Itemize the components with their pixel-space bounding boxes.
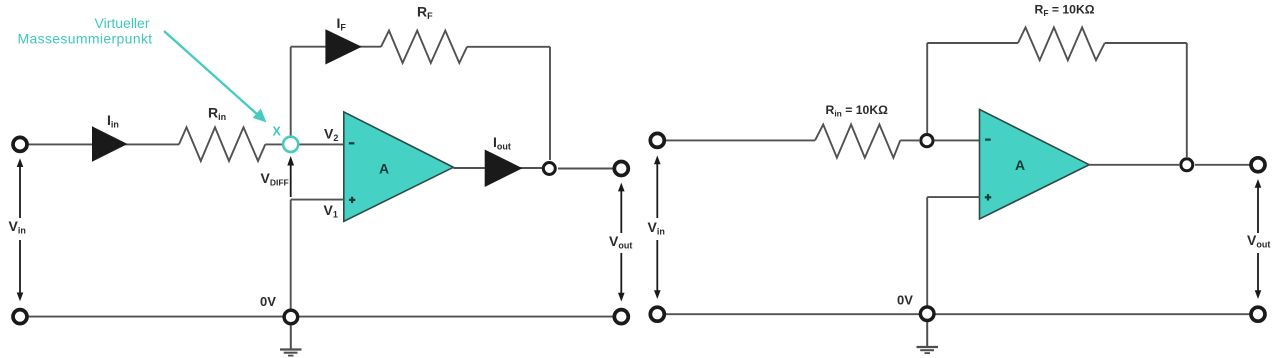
Vin double arrow (left) <box>19 165 21 218</box>
resistor Rf = 10K (right) <box>1018 27 1105 60</box>
output junction node (left) <box>543 163 555 175</box>
ground (left) <box>290 325 292 349</box>
ground (right) <box>926 322 928 347</box>
wire: output node to output terminal <box>558 168 613 170</box>
svg-text:Massesummierpunkt: Massesummierpunkt <box>17 31 152 47</box>
svg-text:A: A <box>1015 157 1025 173</box>
resistor Rf <box>381 31 467 63</box>
arrow VDIFF (pointing up to node X) <box>290 164 292 197</box>
svg-text:A: A <box>379 161 389 177</box>
current arrow Iin <box>92 126 128 161</box>
bottom left terminal <box>13 310 27 324</box>
op-amp A (left) <box>344 112 454 221</box>
bottom right terminal (right circuit) <box>1251 307 1265 321</box>
wire: feedback riser from node X <box>290 47 292 136</box>
annotation arrow to node X <box>164 31 258 115</box>
inverting input node (right) <box>921 135 933 147</box>
svg-text:X: X <box>273 125 282 139</box>
wire: op-amp output to output node <box>453 167 542 169</box>
0V node (right circuit) <box>920 307 934 321</box>
wire: input terminal to resistor Rin <box>28 143 179 145</box>
node X (virtual ground summing point) <box>283 137 298 152</box>
bottom wire (left circuit) <box>28 316 613 318</box>
wire: node X to op-amp minus input <box>300 143 344 145</box>
wire: plus input drop to 0V node (right) <box>926 197 928 306</box>
wire: op-amp output to output node (right) <box>1089 164 1179 166</box>
wire: feedback top run <box>291 46 381 48</box>
current arrow IF <box>325 29 361 64</box>
output terminal (right circuit) <box>1251 158 1265 172</box>
wire: feedback riser (right) <box>926 43 928 133</box>
0V node (left circuit) <box>284 310 298 324</box>
bottom wire (right circuit) <box>666 313 1251 315</box>
input terminal (left circuit, top left) <box>13 137 27 151</box>
output junction node (right) <box>1181 159 1193 171</box>
svg-text:0V: 0V <box>897 293 913 308</box>
plus sign (left op-amp) <box>349 197 355 203</box>
wire: resistor to node X <box>265 143 282 145</box>
svg-text:0V: 0V <box>260 294 276 309</box>
wire: plus input drop to 0V node <box>290 200 292 309</box>
current arrow Iout <box>485 150 523 188</box>
op-amp A (right) <box>980 109 1090 219</box>
Vout double arrow (left) <box>620 190 622 233</box>
wire: resistor to inverting node (right) <box>900 139 919 141</box>
minus sign (left op-amp) <box>349 142 355 144</box>
minus sign (right op-amp) <box>985 139 991 141</box>
input terminal (right circuit) <box>650 133 664 147</box>
wire: plus input run <box>291 199 344 201</box>
bottom right terminal (left circuit) <box>614 310 628 324</box>
resistor Rin = 10K (right) <box>815 125 900 158</box>
Vout double arrow (right) <box>1257 186 1259 233</box>
wire: feedback drop to output node <box>549 47 551 160</box>
svg-text:Virtueller: Virtueller <box>95 15 150 31</box>
wire: feedback top run (right) <box>927 42 1018 44</box>
plus sign (right op-amp) <box>985 194 991 200</box>
wire: resistor Rf to feedback corner <box>467 46 550 48</box>
wire: plus input run (right) <box>927 196 979 198</box>
output terminal (left circuit, top right) <box>614 162 628 176</box>
resistor Rin <box>179 127 265 161</box>
wire: inverting node to op-amp (right) <box>935 139 980 141</box>
Vin double arrow (right) <box>656 162 658 218</box>
wire: feedback drop to output node (right) <box>1186 43 1188 157</box>
wire: input terminal to resistor Rin (right) <box>666 139 816 141</box>
bottom left terminal (right circuit) <box>650 307 664 321</box>
wire: output node to output terminal (right) <box>1195 164 1250 166</box>
wire: resistor Rf to feedback corner (right) <box>1105 42 1187 44</box>
